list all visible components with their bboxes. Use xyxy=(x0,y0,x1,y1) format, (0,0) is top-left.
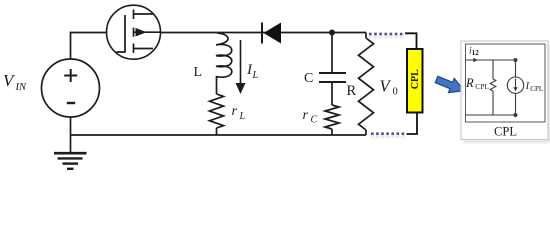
svg-text:r: r xyxy=(232,104,238,119)
svg-text:V: V xyxy=(3,71,16,90)
svg-text:IN: IN xyxy=(15,82,27,93)
svg-text:R: R xyxy=(347,83,357,99)
svg-text:C: C xyxy=(311,115,318,126)
svg-text:L: L xyxy=(194,65,203,80)
svg-text:I: I xyxy=(525,81,530,92)
svg-text:CPL: CPL xyxy=(410,69,421,89)
svg-text:CPL: CPL xyxy=(494,124,517,138)
svg-text:CPL: CPL xyxy=(530,85,543,93)
svg-text:12: 12 xyxy=(472,49,480,57)
svg-text:r: r xyxy=(303,108,309,123)
svg-text:0: 0 xyxy=(393,87,398,98)
svg-text:C: C xyxy=(304,71,313,86)
svg-text:R: R xyxy=(465,76,474,90)
svg-text:V: V xyxy=(380,77,392,96)
svg-text:L: L xyxy=(252,70,259,81)
svg-text:L: L xyxy=(239,111,246,122)
svg-text:CPL: CPL xyxy=(475,82,489,91)
